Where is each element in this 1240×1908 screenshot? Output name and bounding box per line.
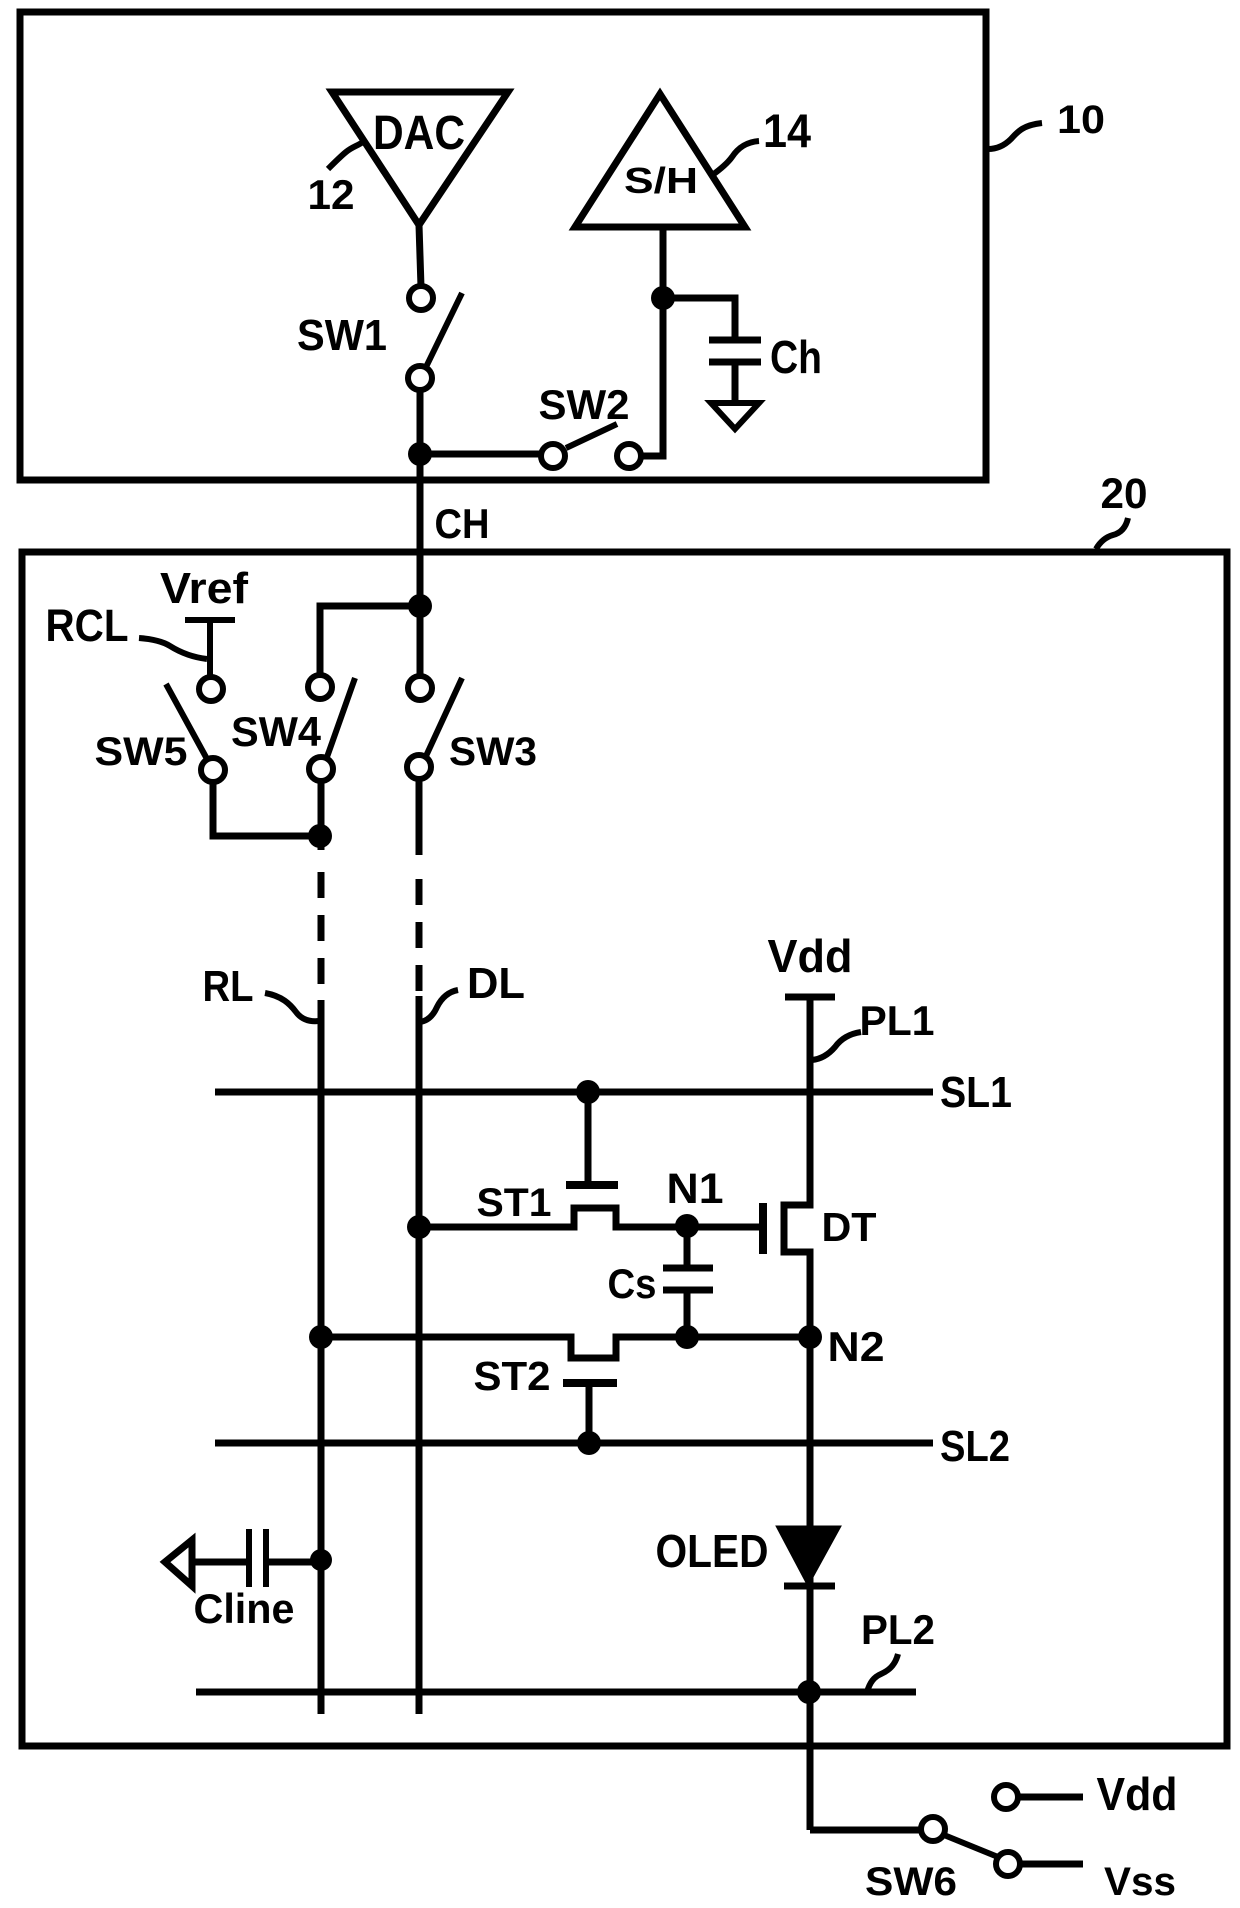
leader squiggle 10 (988, 123, 1042, 149)
svg-text:N1: N1 (667, 1165, 724, 1213)
wire to SW6 (810, 1827, 921, 1834)
wire N2 row (321, 1337, 810, 1358)
wire SL1 (215, 1089, 933, 1096)
svg-text:20: 20 (1101, 470, 1148, 518)
leader squiggle 14 (711, 141, 759, 176)
svg-text:Vss: Vss (1104, 1860, 1176, 1904)
wire node CH vertical (417, 454, 424, 609)
node DL ST1 junction (407, 1215, 431, 1239)
svg-text:SL1: SL1 (940, 1068, 1012, 1117)
terminal Vdd (994, 1785, 1018, 1809)
node N2 (798, 1325, 822, 1349)
svg-text:OLED: OLED (656, 1525, 769, 1577)
svg-text:Vdd: Vdd (1097, 1768, 1178, 1820)
svg-text:N2: N2 (828, 1323, 885, 1370)
svg-text:14: 14 (763, 104, 811, 157)
wire SL2 (215, 1440, 933, 1447)
leader squiggle RCL (139, 638, 207, 659)
leader squiggle RL (265, 993, 319, 1021)
node PL2 junction (797, 1680, 821, 1704)
leader squiggle PL2 (867, 1654, 898, 1692)
wire RL solid (318, 1000, 325, 1714)
svg-text:CH: CH (435, 500, 490, 547)
svg-text:Vref: Vref (160, 564, 248, 613)
svg-text:ST2: ST2 (474, 1353, 551, 1399)
block 10 box (20, 12, 986, 480)
svg-text:SW5: SW5 (95, 730, 188, 774)
svg-text:10: 10 (1057, 98, 1105, 142)
wire SW3 down (416, 779, 423, 855)
svg-text:Ch: Ch (770, 331, 822, 383)
leader squiggle DL (420, 990, 458, 1022)
capacitor Cs (684, 1227, 691, 1268)
block 20 box (22, 552, 1227, 1746)
node RL N2 junction (309, 1325, 333, 1349)
svg-text:RL: RL (203, 962, 254, 1011)
wire Vss (1020, 1861, 1083, 1868)
switch SW6 (921, 1817, 945, 1841)
wire DL dashed (416, 879, 423, 996)
switch SW4 (308, 675, 332, 699)
wire DAC output (419, 225, 421, 287)
svg-text:SW6: SW6 (865, 1860, 957, 1904)
wire PL2 (196, 1689, 916, 1696)
wire SW2 to S/H line (641, 227, 663, 456)
wire CH to SW3 (417, 606, 424, 677)
svg-text:Cline: Cline (194, 1585, 295, 1632)
node N1 (675, 1214, 699, 1238)
transistor ST1 (585, 1092, 592, 1181)
Vref supply (185, 617, 235, 623)
wire PL1 (784, 997, 810, 1830)
wire SW1 to node (417, 390, 424, 457)
wire to Ch (663, 298, 735, 337)
leader squiggle 20 (1096, 518, 1128, 549)
leader squiggle 12 (328, 142, 363, 169)
svg-text:SL2: SL2 (940, 1422, 1010, 1471)
svg-text:Cs: Cs (608, 1260, 657, 1307)
node S/H output junction (651, 286, 675, 310)
diode OLED (781, 1529, 836, 1580)
wire branch to SW4 (320, 606, 420, 676)
svg-text:SW1: SW1 (297, 311, 387, 360)
svg-text:ST1: ST1 (477, 1181, 552, 1225)
node SL2 gate junction (577, 1431, 601, 1455)
leader squiggle PL1 (812, 1032, 861, 1060)
node Cline RL junction (310, 1549, 332, 1571)
capacitor Ch (709, 337, 761, 344)
ground (711, 403, 759, 429)
svg-text:12: 12 (308, 171, 355, 218)
wire DL solid (416, 996, 423, 1714)
svg-text:PL2: PL2 (861, 1606, 935, 1653)
node RL top junction (308, 824, 332, 848)
switch SW5 (199, 677, 223, 701)
capacitor Cline (165, 1540, 192, 1586)
svg-text:S/H: S/H (624, 160, 698, 201)
wire SW4 down (318, 781, 325, 850)
node Cs bottom junction (675, 1325, 699, 1349)
wire RL dashed (318, 872, 325, 1000)
node CH branch junction (408, 594, 432, 618)
svg-text:SW3: SW3 (449, 730, 537, 774)
switch SW1 (409, 286, 433, 310)
node SL1 gate junction (576, 1080, 600, 1104)
svg-text:RCL: RCL (46, 600, 129, 651)
svg-text:PL1: PL1 (860, 997, 935, 1044)
DAC U12 triangle (332, 92, 508, 225)
svg-text:SW4: SW4 (231, 708, 322, 755)
wire node to SW2 (417, 451, 541, 458)
svg-text:DL: DL (467, 959, 525, 1008)
transistor DT (687, 1224, 760, 1231)
switch SW2 (541, 444, 565, 468)
svg-text:SW2: SW2 (539, 381, 630, 428)
svg-text:DT: DT (822, 1204, 877, 1250)
transistor ST2 (563, 1379, 617, 1387)
svg-text:Vdd: Vdd (768, 930, 853, 982)
S/H amp 14 triangle (575, 94, 745, 227)
wire SW5 to RL node (213, 782, 320, 836)
node junction (408, 442, 432, 466)
svg-text:DAC: DAC (373, 107, 465, 160)
switch SW3 (408, 676, 432, 700)
